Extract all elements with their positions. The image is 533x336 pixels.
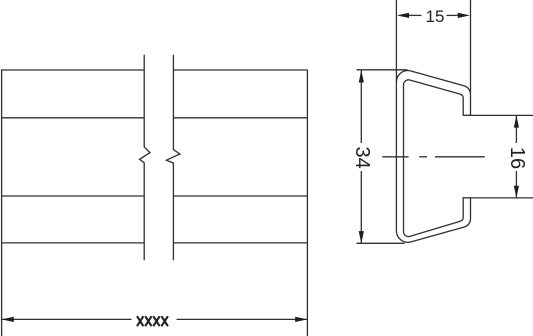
arrow top of 16 dimension bbox=[514, 115, 519, 127]
16 dimension line upper segment bbox=[515, 115, 517, 143]
arrow top of 34 dimension bbox=[359, 70, 364, 82]
rail bottom edge (right half) bbox=[174, 242, 309, 244]
centerline of section bbox=[382, 156, 408, 158]
34 dimension bottom extension line bbox=[357, 242, 405, 244]
rail groove line lower (left half) bbox=[1, 195, 144, 197]
arrow right of xxxx dimension bbox=[295, 317, 307, 322]
16 dimension bottom extension line bbox=[463, 197, 533, 199]
arrow bottom of 34 dimension bbox=[359, 231, 364, 243]
15 dimension left extension line bbox=[395, 0, 397, 82]
svg-text:15: 15 bbox=[426, 7, 445, 26]
15 dimension line left segment bbox=[409, 14, 422, 16]
rail groove line upper (left half) bbox=[1, 117, 144, 119]
15 dimension right extension line bbox=[470, 0, 472, 93]
rail top edge (left half) bbox=[1, 69, 144, 71]
16 dimension top extension line bbox=[463, 114, 533, 116]
xxxx dimension line left segment bbox=[2, 318, 132, 320]
arrow left of xxxx dimension bbox=[2, 317, 14, 322]
arrow left of 15 dimension bbox=[397, 13, 409, 18]
label xxxx bbox=[137, 316, 168, 326]
arrow bottom of 16 dimension bbox=[514, 186, 519, 198]
34 dimension line upper segment bbox=[360, 70, 362, 143]
34 dimension top extension line bbox=[357, 69, 408, 71]
profile section outline U1 bbox=[396, 71, 470, 243]
rail top edge (right half) bbox=[174, 69, 309, 71]
rail groove line lower (right half) bbox=[174, 195, 309, 197]
rail left edge + left extension line of xxxx dimension bbox=[1, 70, 3, 336]
svg-text:16: 16 bbox=[506, 147, 528, 169]
xxxx dimension line right segment bbox=[177, 318, 308, 320]
rail right edge + right extension line of xxxx dimension bbox=[306, 70, 308, 336]
rail groove line upper (right half) bbox=[174, 117, 309, 119]
break line left bbox=[140, 55, 150, 260]
break line right bbox=[166, 55, 180, 260]
16 dimension line lower segment bbox=[515, 171, 517, 198]
15 dimension line right segment bbox=[447, 14, 460, 16]
rail bottom edge (left half) bbox=[1, 242, 144, 244]
svg-text:34: 34 bbox=[351, 146, 373, 168]
arrow right of 15 dimension bbox=[458, 13, 470, 18]
34 dimension line lower segment bbox=[360, 171, 362, 243]
